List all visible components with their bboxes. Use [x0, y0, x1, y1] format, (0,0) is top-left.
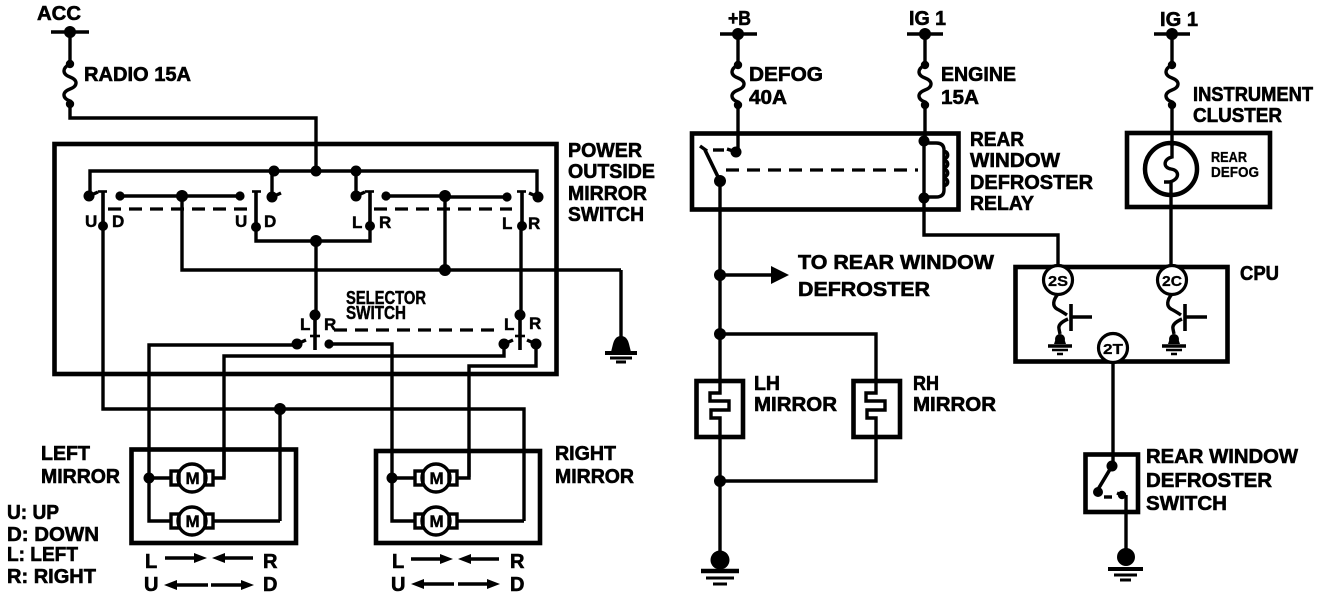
box LEFT MIRROR: [132, 450, 297, 544]
svg-text:R: R: [528, 214, 540, 233]
svg-text:L: L: [392, 551, 404, 573]
svg-text:M: M: [186, 512, 200, 531]
wire ground rail down: [619, 270, 622, 340]
wire defroster switch to ground: [1124, 512, 1127, 553]
svg-text:L: L: [145, 551, 157, 573]
node RM (392,478): [387, 473, 398, 484]
wire top rail: [90, 171, 537, 197]
node rail junction x356: [351, 166, 362, 177]
label REAR DEFOG: [1211, 149, 1259, 181]
svg-text:R: RIGHT: R: RIGHT: [7, 566, 96, 588]
svg-text:L: L: [300, 315, 310, 334]
legend arrows left mirror U-D: [144, 574, 277, 596]
svg-text:L: L: [504, 315, 514, 334]
node ACC terminal: [51, 26, 89, 38]
motor M1 left mirror: [171, 464, 213, 492]
svg-text:M: M: [186, 469, 200, 488]
svg-text:RIGHT: RIGHT: [555, 443, 616, 465]
node A (182,196): [176, 190, 188, 202]
label POWER OUTSIDE MIRROR SWITCH: [568, 140, 655, 226]
relay switch contact: [713, 147, 742, 158]
svg-text:LEFT: LEFT: [41, 443, 90, 465]
wire IG1 to fuse: [1170, 34, 1173, 65]
ground Q2 emitter: [1162, 334, 1186, 354]
legend text U D L R meanings: [7, 502, 99, 588]
svg-text:DEFOG: DEFOG: [749, 64, 823, 86]
switch box POWER OUTSIDE MIRROR SWITCH: [55, 144, 557, 374]
indicator lamp REAR DEFOG: [1145, 143, 1197, 207]
svg-text:DEFOG: DEFOG: [1211, 164, 1259, 181]
svg-text:DEFROSTER: DEFROSTER: [798, 279, 931, 301]
node IG1 cluster terminal: [1154, 28, 1190, 40]
wire rail drop to contact U/D-2: [270, 171, 273, 194]
wire node A down to ground rail: [182, 196, 621, 270]
svg-text:REAR: REAR: [970, 129, 1025, 151]
switch unit 3 L/R (left mirror left-right): [351, 191, 392, 233]
svg-text:DEFROSTER: DEFROSTER: [970, 172, 1094, 194]
svg-text:RELAY: RELAY: [970, 193, 1035, 215]
svg-text:M: M: [430, 512, 444, 531]
svg-text:D: DOWN: D: DOWN: [7, 524, 99, 546]
legend arrows left mirror L-R: [145, 551, 278, 573]
svg-text:OUTSIDE: OUTSIDE: [568, 161, 655, 183]
svg-text:MIRROR: MIRROR: [555, 466, 635, 488]
node rail junction x274: [269, 166, 280, 177]
svg-text:ACC: ACC: [37, 3, 81, 25]
label SELECTOR SWITCH: [346, 288, 426, 323]
fuse instrument cluster: [1166, 61, 1178, 109]
wire LM left feed: [149, 478, 172, 521]
svg-text:D: D: [264, 212, 276, 231]
node D (445,270): [439, 264, 451, 276]
svg-text:CPU: CPU: [1240, 263, 1279, 285]
svg-text:MIRROR: MIRROR: [568, 183, 648, 205]
node F (720,275): [714, 269, 726, 281]
wire node C down to selector 1 pole: [314, 241, 317, 315]
svg-text:U: U: [391, 574, 405, 596]
node E (280,409): [274, 403, 286, 415]
svg-text:DEFROSTER: DEFROSTER: [1146, 470, 1273, 492]
legend arrows right mirror L-R: [392, 551, 525, 573]
svg-text:CLUSTER: CLUSTER: [1193, 105, 1283, 127]
svg-text:LH: LH: [754, 373, 780, 395]
svg-text:U: UP: U: UP: [7, 502, 59, 524]
node +B terminal: [720, 28, 757, 40]
switch unit 1 U/D (left mirror up-down): [84, 191, 125, 232]
transistor Q1: [1054, 294, 1092, 334]
svg-text:2C: 2C: [1162, 273, 1182, 290]
wire LH mirror down: [718, 437, 721, 481]
svg-text:TO REAR WINDOW: TO REAR WINDOW: [798, 252, 994, 274]
wire RM motor2 right: [457, 519, 524, 522]
ground G1: [605, 336, 637, 362]
svg-text:SWITCH: SWITCH: [346, 303, 406, 323]
switch unit 4 L/R (right mirror left-right): [502, 192, 544, 234]
svg-text:MIRROR: MIRROR: [41, 466, 121, 488]
wire node G branch to RH mirror: [720, 334, 876, 381]
wire node H to ground: [718, 481, 721, 555]
wire contact L/R-1R to node: [386, 194, 445, 197]
label TO REAR WINDOW DEFROSTER: [798, 252, 994, 301]
svg-text:D: D: [112, 212, 124, 231]
pin 2S: [1044, 266, 1073, 295]
svg-text:MIRROR: MIRROR: [754, 394, 838, 416]
svg-text:R: R: [379, 213, 391, 232]
box RH MIRROR: [854, 381, 901, 437]
node rail junction ACC input: [311, 166, 322, 177]
svg-text:POWER: POWER: [568, 140, 643, 162]
wire node G to LH mirror: [718, 334, 721, 381]
value label DEFOG 40A: [749, 64, 823, 109]
ground G3: [1108, 548, 1143, 580]
label RH MIRROR: [913, 373, 997, 416]
ground G2: [701, 551, 739, 585]
ground Q1 emitter: [1048, 334, 1072, 354]
svg-text:RADIO 15A: RADIO 15A: [84, 64, 191, 86]
wire fuse to switch box input: [70, 104, 316, 171]
legend arrows right mirror U-D: [391, 574, 524, 596]
wire cluster lamp to CPU 2C: [1169, 207, 1172, 267]
wire RH mirror down to node H: [720, 437, 876, 481]
wire LM motor2 right up: [213, 519, 280, 522]
label INSTRUMENT CLUSTER: [1193, 84, 1313, 127]
pin 2C: [1158, 266, 1187, 295]
wire LM motor1 right up: [213, 449, 224, 478]
svg-text:+B: +B: [728, 8, 751, 30]
node G (720,334): [714, 328, 726, 340]
wire selector1 L contact to left mirror motors: [149, 345, 297, 478]
linkage dashed L/R units: [374, 207, 512, 210]
svg-text:L: LEFT: L: LEFT: [7, 544, 78, 566]
defroster switch contact and arm: [1093, 461, 1126, 513]
wire U/D-1 pole to lower bus: [103, 226, 524, 521]
wire RM motor1 right up: [457, 451, 469, 478]
wire IG1 to fuse: [923, 34, 926, 65]
value label ENGINE 15A: [941, 64, 1016, 109]
fuse ENGINE 15A: [919, 61, 931, 109]
wire 2T to defroster switch: [1111, 362, 1114, 466]
box REAR WINDOW DEFROSTER SWITCH: [1086, 455, 1139, 513]
wire ACC to fuse: [68, 32, 71, 64]
wire fuse to cluster box: [1170, 105, 1173, 146]
svg-text:2S: 2S: [1048, 273, 1068, 290]
wire U/D poles to selector feed: [256, 226, 370, 241]
svg-text:L: L: [352, 213, 362, 232]
wire selector2 R contact to RM motor1 right: [469, 344, 536, 477]
box CPU: [1016, 267, 1228, 362]
svg-text:WINDOW: WINDOW: [970, 150, 1060, 172]
svg-text:IG 1: IG 1: [909, 8, 946, 30]
wire node A to contact U/D-2L: [182, 194, 240, 197]
svg-text:L: L: [502, 214, 512, 233]
wire relay coil to CPU 2S: [924, 198, 1058, 267]
svg-text:MIRROR: MIRROR: [913, 394, 997, 416]
relay box REAR WINDOW DEFROSTER RELAY: [692, 134, 959, 210]
wire fuse to relay contact: [736, 105, 739, 148]
node H (720,481): [714, 475, 726, 487]
defogger element LH: [710, 381, 729, 437]
wire selector1 R contact to right mirror motors: [329, 344, 392, 478]
relay actuation dashed link: [726, 168, 918, 171]
svg-text:D: D: [510, 574, 524, 596]
node C (316,241): [310, 235, 322, 247]
linkage dashed selector: [334, 328, 500, 331]
svg-text:2T: 2T: [1103, 341, 1123, 358]
relay switch arm: [700, 146, 726, 187]
wire L/R-2 pole down to selector 2 pole: [519, 226, 522, 315]
box LH MIRROR: [697, 381, 744, 437]
svg-text:D: D: [263, 574, 277, 596]
wire RM node to motor1: [392, 476, 416, 479]
svg-text:15A: 15A: [941, 87, 979, 109]
selector switch unit 2: [499, 310, 542, 351]
svg-text:IG 1: IG 1: [1160, 9, 1198, 31]
label RIGHT MIRROR: [555, 443, 635, 488]
wire LM node to motor1: [149, 476, 172, 479]
node IG1 terminal: [907, 28, 943, 40]
wire node F down to mirrors: [718, 275, 721, 334]
transistor Q2: [1168, 294, 1207, 334]
wire node E to LM motor2 right: [278, 409, 281, 521]
svg-text:U: U: [144, 574, 158, 596]
svg-text:R: R: [263, 551, 278, 573]
wire node B down to node D: [443, 196, 446, 270]
svg-text:40A: 40A: [749, 87, 787, 109]
wire +B to fuse: [736, 34, 739, 65]
arrow to rear window defroster: [720, 266, 789, 284]
label LEFT MIRROR: [41, 443, 121, 488]
svg-text:M: M: [430, 469, 444, 488]
wire RM left feed: [392, 478, 416, 521]
node LM (149,478): [144, 473, 155, 484]
label REAR WINDOW DEFROSTER SWITCH: [1146, 446, 1298, 515]
svg-text:SWITCH: SWITCH: [568, 204, 644, 226]
svg-text:R: R: [510, 551, 525, 573]
svg-text:ENGINE: ENGINE: [941, 64, 1016, 86]
box RIGHT MIRROR: [376, 451, 540, 543]
box instrument cluster: [1127, 133, 1270, 207]
wire selector2 L contact to LM motor1 right: [224, 344, 504, 478]
label REAR WINDOW DEFROSTER RELAY: [970, 129, 1094, 215]
label LH MIRROR: [754, 373, 838, 416]
svg-text:U: U: [235, 212, 247, 231]
relay coil: [919, 136, 948, 204]
wire contact U/D-1R to node: [120, 194, 182, 197]
wire fuse to relay coil: [923, 105, 926, 141]
svg-text:INSTRUMENT: INSTRUMENT: [1193, 84, 1313, 106]
motor M2 right mirror: [415, 507, 457, 535]
svg-text:REAR WINDOW: REAR WINDOW: [1146, 446, 1298, 468]
svg-text:R: R: [529, 314, 541, 333]
fuse RADIO 15A: [64, 60, 76, 108]
switch unit 2 U/D (right mirror up-down): [235, 191, 281, 232]
svg-text:U: U: [85, 212, 97, 231]
fuse DEFOG 40A: [732, 61, 744, 109]
svg-text:SWITCH: SWITCH: [1146, 493, 1227, 515]
wire rail drop to contact L/R-1: [354, 171, 357, 193]
pin 2T: [1099, 334, 1128, 363]
motor M2 left mirror: [171, 507, 213, 535]
defogger element RH: [866, 381, 885, 437]
selector switch unit 1: [292, 310, 337, 351]
node B (445,196): [439, 190, 451, 202]
wire relay arm output down: [718, 181, 721, 275]
wire node B to contact L/R-2L: [445, 195, 507, 198]
motor M1 right mirror: [415, 464, 457, 492]
svg-text:RH: RH: [913, 373, 939, 395]
linkage dashed U/D units: [108, 207, 256, 210]
